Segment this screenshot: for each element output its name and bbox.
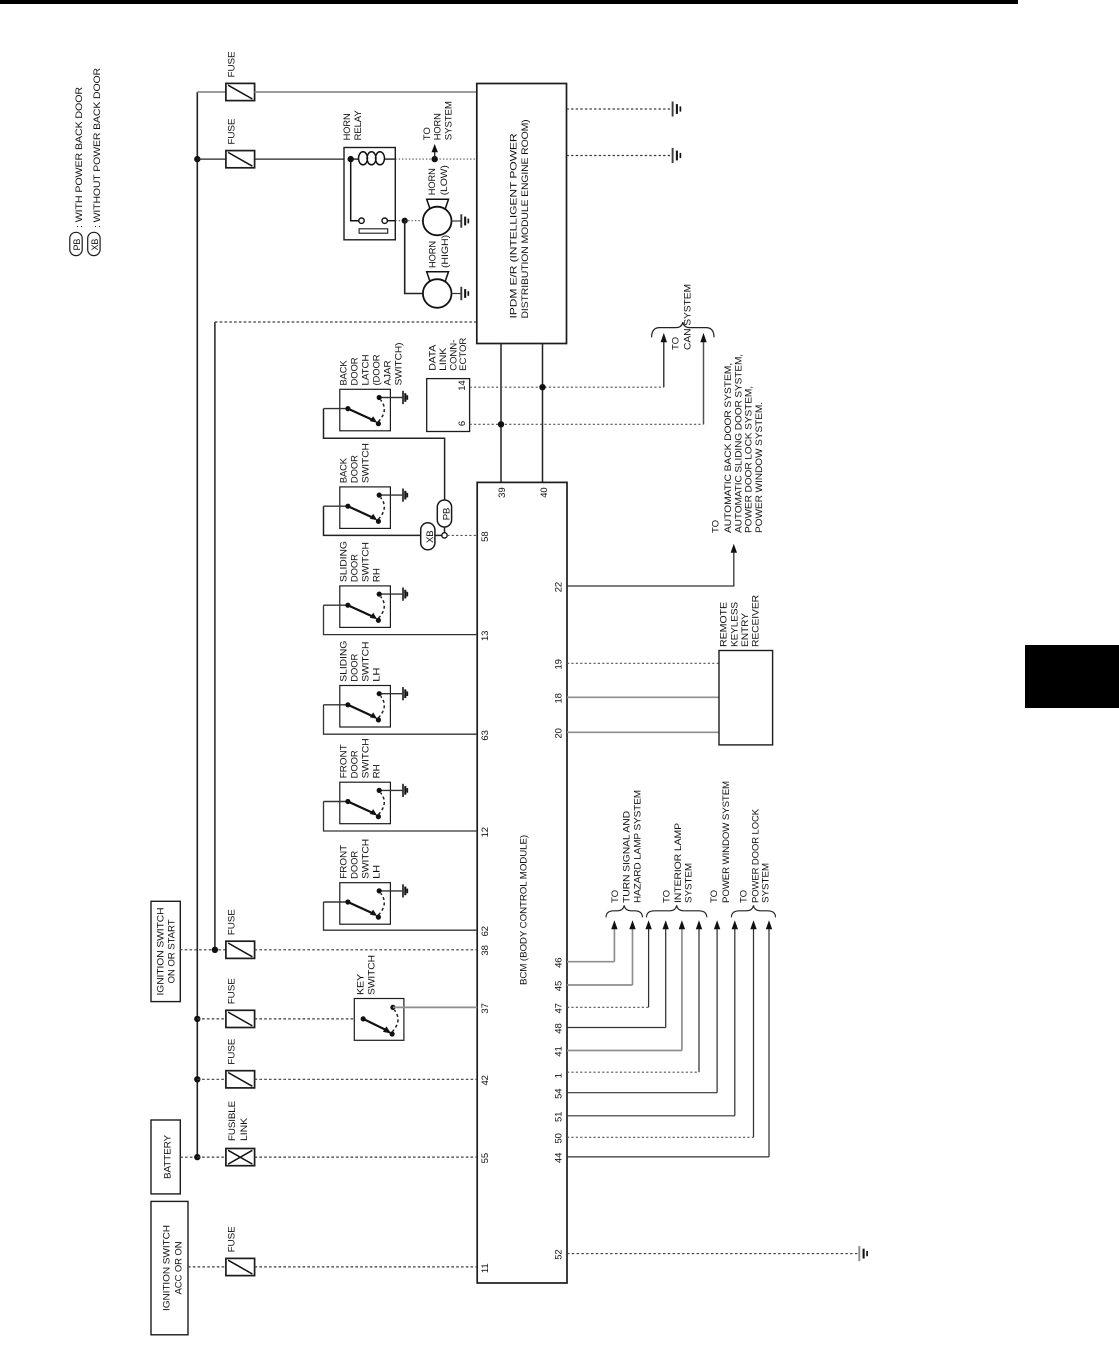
fuse F3 xyxy=(226,941,255,958)
ignition switch ACC OR ON box xyxy=(151,1201,188,1334)
svg-text:SLIDING: SLIDING xyxy=(339,541,350,582)
wire ign ACC to fuse F6 xyxy=(188,1266,226,1268)
svg-text:DISTRIBUTION MODULE ENGINE ROO: DISTRIBUTION MODULE ENGINE ROOM) xyxy=(520,120,531,319)
label BCM xyxy=(519,835,530,985)
brace TO INTERIOR LAMP xyxy=(647,905,707,917)
svg-text:(LOW): (LOW) xyxy=(439,165,450,195)
svg-text:62: 62 xyxy=(480,926,491,936)
wire IPDM to BCM pin 40 xyxy=(542,344,544,483)
svg-text:41: 41 xyxy=(554,1046,565,1056)
wire back door latch to PB xyxy=(324,409,445,501)
svg-text:BACK: BACK xyxy=(339,360,350,386)
svg-text:TO: TO xyxy=(709,890,720,903)
wire ignition bus vertical xyxy=(214,322,216,950)
svg-text:13: 13 xyxy=(480,631,491,641)
svg-text:12: 12 xyxy=(480,827,491,837)
legend text PB xyxy=(74,87,85,228)
svg-text:CAN SYSTEM: CAN SYSTEM xyxy=(683,284,694,350)
label BACK DOOR LATCH (DOOR AJAR SWITCH) xyxy=(339,343,405,386)
pin 48 BCM xyxy=(554,1023,565,1033)
svg-text:DOOR: DOOR xyxy=(350,653,361,681)
svg-text:RELAY: RELAY xyxy=(353,110,364,141)
label FUSE F1 xyxy=(227,52,238,78)
legend symbol XB xyxy=(88,232,100,255)
svg-text:18: 18 xyxy=(554,693,565,703)
junction pin 40 wire / DLC 14 xyxy=(539,384,545,390)
label BATTERY xyxy=(162,1134,173,1179)
svg-text:RH: RH xyxy=(372,764,383,778)
IPDM E/R box xyxy=(477,84,567,344)
horn relay armature bar xyxy=(359,229,388,233)
svg-text:HORN: HORN xyxy=(342,113,353,140)
wire horn high to ground xyxy=(451,293,461,295)
svg-text:INTERIOR LAMP: INTERIOR LAMP xyxy=(673,823,684,903)
brace TO TURN SIGNAL xyxy=(606,905,642,917)
legend symbol PB xyxy=(70,232,82,255)
wire fuse F2 left xyxy=(197,158,226,160)
ground horn high xyxy=(461,287,468,301)
wire IPDM ground 2 xyxy=(567,155,673,157)
wire fuse F2 to horn relay xyxy=(255,158,351,160)
label FUSE F6 xyxy=(227,1226,238,1252)
pin 47 BCM xyxy=(554,1003,565,1013)
wire to horn high xyxy=(405,221,423,294)
svg-text:6: 6 xyxy=(457,421,468,426)
svg-text:AJAR: AJAR xyxy=(383,360,394,385)
svg-text:IGNITION SWITCH: IGNITION SWITCH xyxy=(161,1225,172,1311)
svg-text:DOOR: DOOR xyxy=(350,455,361,483)
svg-text:63: 63 xyxy=(480,730,491,740)
pin 40 BCM xyxy=(539,487,550,497)
label BACK DOOR SWITCH xyxy=(339,443,372,483)
back door latch (door ajar switch) xyxy=(324,389,408,431)
svg-text:FUSE: FUSE xyxy=(227,1039,238,1065)
pin 52 BCM xyxy=(554,1249,565,1259)
svg-text:HORN: HORN xyxy=(427,168,438,195)
junction battery bus / fuse F5 xyxy=(194,1076,200,1082)
junction pin 39 wire / DLC 6 xyxy=(498,421,504,427)
wire battery bus vertical xyxy=(196,92,198,1157)
pin 51 BCM xyxy=(554,1112,565,1122)
svg-text:51: 51 xyxy=(554,1112,565,1122)
wire DLC pin 6 to CAN xyxy=(470,423,704,425)
wire fuse F4 to key switch xyxy=(255,1018,364,1020)
wire BCM pin 50 to system arrow xyxy=(567,920,757,1137)
wire PB to junction xyxy=(444,527,446,533)
horn high symbol xyxy=(423,272,452,308)
svg-text:1: 1 xyxy=(554,1073,565,1078)
pin 45 BCM xyxy=(554,981,565,991)
svg-text:RH: RH xyxy=(372,568,383,582)
wire BCM pin 46 to system arrow xyxy=(567,920,618,961)
wire IPDM ground 1 xyxy=(567,108,673,110)
fuse F5 xyxy=(226,1071,255,1088)
svg-text:TO: TO xyxy=(739,890,750,903)
svg-text:40: 40 xyxy=(539,487,550,497)
wire junction to BCM pin 58 xyxy=(447,534,477,536)
svg-text:SYSTEM: SYSTEM xyxy=(684,863,695,903)
svg-text:LATCH: LATCH xyxy=(361,354,372,385)
label HORN RELAY xyxy=(342,110,364,141)
BCM box xyxy=(477,482,567,1283)
svg-text:BATTERY: BATTERY xyxy=(162,1134,173,1179)
wire horn relay coil to IPDM xyxy=(395,158,477,160)
junction ignition bus xyxy=(212,947,218,953)
pin 63 BCM xyxy=(480,730,491,740)
svg-text:SYSTEM: SYSTEM xyxy=(761,863,772,903)
wire BCM pin 41 to system arrow xyxy=(567,920,685,1050)
svg-text:SWITCH: SWITCH xyxy=(361,641,372,681)
svg-text:FUSE: FUSE xyxy=(227,978,238,1004)
wire bus to fuse F5 xyxy=(197,1078,226,1080)
label TO POWER WINDOW SYSTEM xyxy=(709,781,732,903)
junction to-horn-system tap xyxy=(432,156,438,162)
label TO INTERIOR LAMP SYSTEM xyxy=(662,823,695,903)
label FUSE F3 xyxy=(227,909,238,935)
svg-text:KEY: KEY xyxy=(356,973,367,995)
pin 46 BCM xyxy=(554,958,565,968)
pin 12 BCM xyxy=(480,827,491,837)
arrow CAN 2 xyxy=(700,333,706,424)
fuse F4 xyxy=(226,1010,255,1027)
svg-text:LH: LH xyxy=(372,865,383,879)
label TO CAN SYSTEM xyxy=(671,284,694,350)
svg-text:XB: XB xyxy=(425,531,436,543)
svg-text:: WITH POWER BACK DOOR: : WITH POWER BACK DOOR xyxy=(74,87,85,228)
label TO AUTOMATIC SYSTEMS xyxy=(710,354,765,533)
wire fuse F1 left xyxy=(197,91,226,93)
horn relay coil xyxy=(351,152,396,165)
wire relay output xyxy=(395,220,404,222)
svg-text:DOOR: DOOR xyxy=(350,357,361,385)
svg-text:39: 39 xyxy=(497,487,508,497)
wire BCM pin 47 to system arrow xyxy=(567,920,652,1007)
wire BCM pin 48 to system arrow xyxy=(567,920,669,1027)
svg-text:HORN: HORN xyxy=(433,113,444,140)
svg-text:22: 22 xyxy=(554,582,565,592)
svg-text:FUSE: FUSE xyxy=(227,119,238,145)
label FUSE F4 xyxy=(227,978,238,1004)
pin 18 BCM xyxy=(554,693,565,703)
svg-text:52: 52 xyxy=(554,1249,565,1259)
svg-text:FRONT: FRONT xyxy=(339,744,350,778)
wire BCM pin 1 to system arrow xyxy=(567,920,702,1072)
svg-text:ON OR START: ON OR START xyxy=(167,919,178,983)
sliding door switch LH xyxy=(324,686,408,728)
svg-text:38: 38 xyxy=(480,945,491,955)
svg-text:FUSE: FUSE xyxy=(227,909,238,935)
svg-text:11: 11 xyxy=(480,1263,491,1273)
svg-text:BACK: BACK xyxy=(339,457,350,483)
svg-text:TO: TO xyxy=(610,890,621,903)
label FRONT DOOR SWITCH LH xyxy=(339,839,383,879)
horn relay box xyxy=(344,148,395,240)
pin 6 data link connector xyxy=(457,421,468,426)
label TO TURN SIGNAL AND HAZARD LAMP SYSTEM xyxy=(610,790,644,903)
arrow TO HORN SYSTEM xyxy=(432,144,438,159)
pin 58 BCM xyxy=(480,531,491,541)
wire front door switch LH to BCM pin 62 xyxy=(324,902,478,930)
junction battery bus / fuse F2 xyxy=(194,156,200,162)
svg-text:REMOTE: REMOTE xyxy=(719,602,730,647)
brace TO CAN SYSTEM xyxy=(652,322,714,337)
label HORN (HIGH) xyxy=(428,235,452,268)
svg-text:55: 55 xyxy=(480,1153,491,1163)
wire fuse F5 to BCM pin 42 xyxy=(255,1078,478,1080)
label FUSIBLE LINK xyxy=(227,1101,250,1141)
pin 54 BCM xyxy=(554,1089,565,1099)
ground IPDM 1 xyxy=(673,102,681,117)
front door switch RH xyxy=(324,782,408,824)
junction battery bus / fuse F4 xyxy=(194,1016,200,1022)
junction battery bus bottom xyxy=(194,1154,200,1160)
svg-text:PB: PB xyxy=(72,239,82,251)
svg-text:46: 46 xyxy=(554,958,565,968)
wire battery to bus xyxy=(180,1156,197,1158)
fuse F6 xyxy=(226,1258,255,1275)
svg-text:19: 19 xyxy=(554,659,565,669)
wire BCM pin 51 to system arrow xyxy=(567,920,738,1116)
remote keyless entry receiver box xyxy=(719,651,773,745)
symbol XB on wire xyxy=(421,523,436,550)
svg-text:ECTOR: ECTOR xyxy=(458,338,469,371)
wire BCM pin 45 to system arrow xyxy=(567,920,636,985)
label DATA LINK CONNECTOR xyxy=(428,338,470,371)
wire BCM pin 22 xyxy=(567,553,734,587)
label TO POWER DOOR LOCK SYSTEM xyxy=(739,808,772,903)
wire BCM pin 20 to receiver xyxy=(567,731,719,733)
svg-text:: WITHOUT POWER BACK DOOR: : WITHOUT POWER BACK DOOR xyxy=(92,68,103,228)
horn low symbol xyxy=(423,199,452,235)
wire horn low to ground xyxy=(451,220,461,222)
label KEY SWITCH xyxy=(356,955,378,995)
ignition switch ON OR START box xyxy=(151,901,180,1001)
svg-text:DOOR: DOOR xyxy=(350,554,361,582)
wire XB to junction xyxy=(435,534,442,536)
pin 37 BCM xyxy=(480,1003,491,1013)
svg-text:SWITCH: SWITCH xyxy=(361,443,372,483)
wire IPDM ignition feed horizontal xyxy=(215,321,477,323)
wire BCM pin 52 to ground xyxy=(567,1253,859,1255)
back door switch xyxy=(324,487,408,529)
svg-text:POWER DOOR LOCK SYSTEM,: POWER DOOR LOCK SYSTEM, xyxy=(744,386,755,533)
pin 19 BCM xyxy=(554,659,565,669)
svg-text:TO: TO xyxy=(422,127,433,140)
svg-text:37: 37 xyxy=(480,1003,491,1013)
wire BCM pin 19 to receiver xyxy=(567,662,719,664)
svg-text:HAZARD LAMP SYSTEM: HAZARD LAMP SYSTEM xyxy=(633,790,644,903)
legend text XB xyxy=(92,68,103,228)
svg-text:RECEIVER: RECEIVER xyxy=(751,595,762,647)
wire fuse F6 to BCM pin 11 xyxy=(255,1266,478,1268)
wire ign ON to fuse F3 xyxy=(180,949,226,951)
pin 50 BCM xyxy=(554,1133,565,1143)
svg-text:LINK: LINK xyxy=(239,1117,250,1141)
svg-text:AUTOMATIC BACK DOOR SYSTEM,: AUTOMATIC BACK DOOR SYSTEM, xyxy=(723,363,734,533)
black header bar xyxy=(0,0,1018,4)
wire key switch to BCM pin 37 xyxy=(393,1006,477,1008)
svg-text:FUSE: FUSE xyxy=(227,1226,238,1252)
pin 62 BCM xyxy=(480,926,491,936)
label REMOTE KEYLESS ENTRY RECEIVER xyxy=(719,595,762,647)
pin 1 BCM xyxy=(554,1073,565,1078)
wire fusible link to BCM pin 55 xyxy=(255,1156,478,1158)
wire back door switch to XB xyxy=(324,506,421,535)
svg-text:ACC OR ON: ACC OR ON xyxy=(174,1241,185,1294)
brace TO POWER DOOR LOCK xyxy=(731,905,775,917)
svg-text:20: 20 xyxy=(554,728,565,738)
svg-text:DOOR: DOOR xyxy=(350,750,361,778)
ground horn low xyxy=(461,214,468,228)
pin 11 BCM xyxy=(480,1263,491,1273)
front door switch LH xyxy=(324,883,408,925)
svg-text:TURN SIGNAL AND: TURN SIGNAL AND xyxy=(622,811,633,903)
label SLIDING DOOR SWITCH RH xyxy=(339,541,383,582)
svg-text:(HIGH): (HIGH) xyxy=(440,235,451,268)
svg-text:SWITCH): SWITCH) xyxy=(394,343,405,386)
svg-text:45: 45 xyxy=(554,981,565,991)
svg-text:FUSIBLE: FUSIBLE xyxy=(227,1101,238,1141)
svg-text:54: 54 xyxy=(554,1089,565,1099)
svg-text:XB: XB xyxy=(90,239,100,251)
fuse F2 xyxy=(226,151,255,168)
svg-text:TO: TO xyxy=(710,520,721,533)
label IGNITION SWITCH ACC OR ON xyxy=(161,1225,184,1311)
wire BCM pin 54 to system arrow xyxy=(567,920,720,1092)
junction horn branch xyxy=(402,218,408,224)
svg-text:POWER WINDOW SYSTEM: POWER WINDOW SYSTEM xyxy=(721,781,732,903)
key switch box xyxy=(354,999,404,1041)
svg-text:50: 50 xyxy=(554,1133,565,1143)
black side tab xyxy=(1025,645,1119,708)
fusible link xyxy=(226,1149,255,1166)
horn relay switch contacts xyxy=(351,159,396,223)
svg-text:48: 48 xyxy=(554,1023,565,1033)
wire sliding door switch RH to BCM pin 13 xyxy=(324,605,478,634)
wire front door switch RH to BCM pin 12 xyxy=(324,802,478,832)
svg-text:DATA: DATA xyxy=(428,344,439,371)
wire BCM pin 44 to system arrow xyxy=(567,920,772,1157)
wire fuse F3 to BCM pin 38 xyxy=(255,949,478,951)
svg-text:SWITCH: SWITCH xyxy=(361,738,372,778)
pin 44 BCM xyxy=(554,1153,565,1163)
label HORN (LOW) xyxy=(427,165,450,195)
pin 13 BCM xyxy=(480,631,491,641)
wire bus to fuse F4 xyxy=(197,1018,226,1020)
svg-text:BCM (BODY CONTROL MODULE): BCM (BODY CONTROL MODULE) xyxy=(519,835,530,985)
svg-text:FRONT: FRONT xyxy=(339,845,350,879)
junction open circle pin 58 wire xyxy=(442,533,447,538)
label TO HORN SYSTEM xyxy=(422,101,455,140)
svg-text:44: 44 xyxy=(554,1153,565,1163)
arrow pin 22 to systems xyxy=(731,544,737,553)
svg-text:TO: TO xyxy=(671,337,682,350)
svg-text:SYSTEM: SYSTEM xyxy=(444,101,455,140)
pin 22 BCM xyxy=(554,582,565,592)
fuse F1 xyxy=(226,83,255,100)
pin 38 BCM xyxy=(480,945,491,955)
svg-text:SWITCH: SWITCH xyxy=(361,839,372,879)
data link connector box xyxy=(427,379,470,432)
svg-text:14: 14 xyxy=(457,380,468,390)
svg-text:POWER WINDOW SYSTEM.: POWER WINDOW SYSTEM. xyxy=(754,402,765,533)
svg-text:SWITCH: SWITCH xyxy=(367,955,378,995)
junction horn relay coil input xyxy=(348,156,354,162)
ground IPDM 2 xyxy=(673,148,681,163)
wire DLC pin 14 to CAN xyxy=(470,386,664,388)
pin 20 BCM xyxy=(554,728,565,738)
key switch contacts xyxy=(361,1005,398,1037)
pin 42 BCM xyxy=(480,1075,491,1085)
pin 41 BCM xyxy=(554,1046,565,1056)
svg-text:ENTRY: ENTRY xyxy=(740,612,751,647)
svg-text:SWITCH: SWITCH xyxy=(361,542,372,582)
wire IPDM to BCM pin 39 xyxy=(500,344,502,483)
wire fuse F1 to IPDM xyxy=(255,91,477,93)
pin 14 data link connector xyxy=(457,380,468,390)
svg-text:LH: LH xyxy=(372,667,383,681)
label FUSE F2 xyxy=(227,119,238,145)
label IPDM E/R xyxy=(509,120,532,319)
label SLIDING DOOR SWITCH LH xyxy=(339,641,383,682)
wire bus to fusible link xyxy=(197,1156,226,1158)
svg-text:47: 47 xyxy=(554,1003,565,1013)
wire sliding door switch LH to BCM pin 63 xyxy=(324,705,478,734)
wire BCM pin 18 to receiver xyxy=(567,696,719,698)
svg-text:(DOOR: (DOOR xyxy=(372,354,383,385)
label IGNITION SWITCH ON OR START xyxy=(156,907,178,995)
svg-text:DOOR: DOOR xyxy=(350,851,361,879)
svg-text:TO: TO xyxy=(662,890,673,903)
svg-text:KEYLESS: KEYLESS xyxy=(730,602,741,647)
svg-text:IPDM E/R (INTELLIGENT POWER: IPDM E/R (INTELLIGENT POWER xyxy=(509,133,520,318)
svg-text:HORN: HORN xyxy=(428,241,439,268)
wire to horn low xyxy=(405,220,423,222)
pin 39 BCM xyxy=(497,487,508,497)
ground BCM pin 52 xyxy=(859,1246,867,1261)
label FRONT DOOR SWITCH RH xyxy=(339,738,383,778)
pin 55 BCM xyxy=(480,1153,491,1163)
svg-text:SLIDING: SLIDING xyxy=(339,641,350,682)
svg-text:FUSE: FUSE xyxy=(227,52,238,78)
svg-text:58: 58 xyxy=(480,531,491,541)
svg-text:PB: PB xyxy=(442,508,453,520)
arrow CAN 1 xyxy=(661,333,667,387)
label FUSE F5 xyxy=(227,1039,238,1065)
battery box xyxy=(151,1120,180,1194)
svg-text:IGNITION SWITCH: IGNITION SWITCH xyxy=(156,907,167,995)
sliding door switch RH xyxy=(324,586,408,628)
symbol PB on wire xyxy=(437,500,452,527)
svg-text:42: 42 xyxy=(480,1075,491,1085)
